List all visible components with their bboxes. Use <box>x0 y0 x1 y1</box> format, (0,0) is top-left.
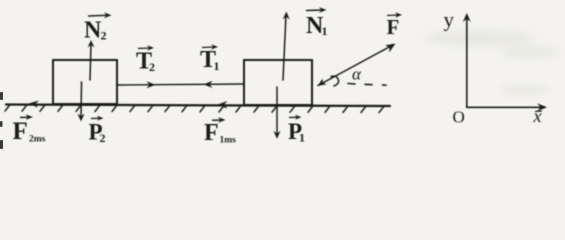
block m1 (right) <box>244 60 312 105</box>
label T1 <box>200 44 220 73</box>
label P1 <box>288 115 305 145</box>
label P2 <box>89 116 106 145</box>
friction arrowhead on ground (block 2) <box>29 101 40 108</box>
block m2 (left) <box>53 60 117 104</box>
label F_1ms (friction on block 1) <box>204 117 236 146</box>
label F_2ms (friction on block 2) <box>13 114 46 145</box>
svg-text:1: 1 <box>299 131 305 145</box>
x axis <box>467 103 547 111</box>
vector N2 <box>88 40 95 80</box>
svg-text:y: y <box>444 8 455 32</box>
label N2 <box>84 12 112 43</box>
label x axis <box>533 106 543 126</box>
vector F (applied force at angle) <box>318 44 396 87</box>
svg-text:O: O <box>453 108 465 127</box>
svg-text:2ms: 2ms <box>29 135 46 145</box>
svg-text:2: 2 <box>149 60 155 74</box>
vector P1 <box>273 87 280 139</box>
svg-text:2: 2 <box>101 29 107 43</box>
svg-text:α: α <box>352 65 362 84</box>
y axis <box>463 13 471 107</box>
label N1 <box>306 7 328 39</box>
dashed horizontal reference line <box>348 84 386 86</box>
svg-text:F: F <box>204 120 219 146</box>
svg-text:N: N <box>84 18 102 44</box>
svg-text:2: 2 <box>100 131 106 145</box>
svg-text:1: 1 <box>322 24 328 38</box>
angle arc <box>331 76 339 86</box>
label T2 <box>136 45 155 74</box>
ground hatching <box>5 104 384 112</box>
vector N1 <box>283 12 290 81</box>
tension arrowhead T1 <box>204 81 213 88</box>
tension arrowhead T2 <box>147 81 156 88</box>
label F (applied force) <box>387 12 403 39</box>
svg-text:1ms: 1ms <box>220 136 237 146</box>
svg-text:F: F <box>387 15 400 39</box>
vector P2 <box>77 82 84 122</box>
svg-text:F: F <box>13 118 28 145</box>
ground line <box>6 105 390 107</box>
svg-text:x: x <box>533 106 542 126</box>
paper background <box>0 0 565 156</box>
svg-text:1: 1 <box>214 59 220 73</box>
friction arrowhead on ground (block 1) <box>217 101 228 109</box>
rope wire <box>117 84 244 85</box>
scan edge smudges <box>0 92 3 149</box>
